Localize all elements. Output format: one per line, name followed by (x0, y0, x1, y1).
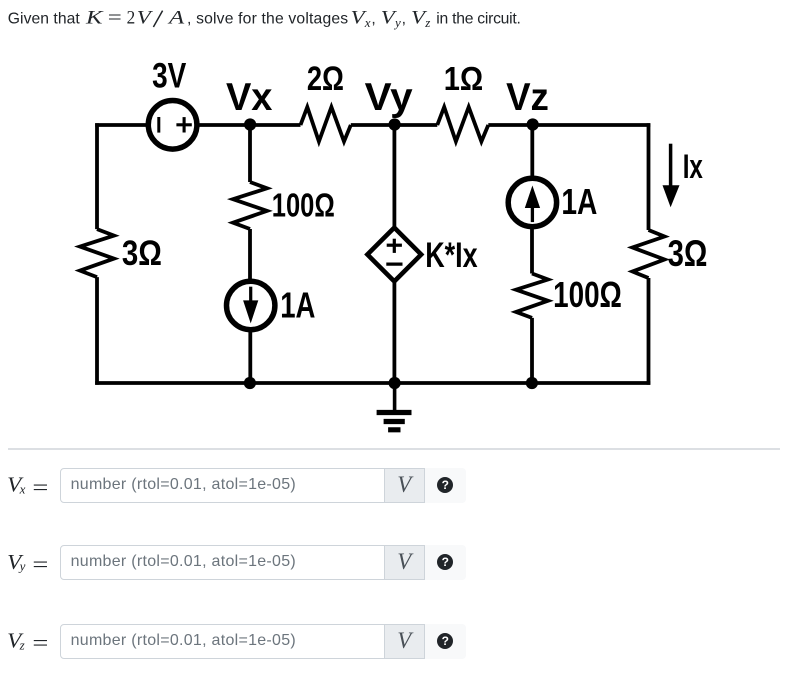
wire Vy node down to dependent source (392, 125, 396, 229)
svg-text:V: V (137, 8, 154, 29)
svg-text:Ix: Ix (683, 148, 703, 186)
svg-text:y: y (18, 559, 26, 574)
svg-text:x: x (364, 15, 371, 30)
label node Vy (365, 76, 413, 119)
current source 1A (up arrow, Vz branch) (508, 178, 556, 226)
svg-text:z: z (424, 15, 430, 30)
dependent source K*Ix (diamond) (367, 228, 421, 282)
wire 100-ohm to bottom rail (Vz branch) (530, 318, 534, 383)
svg-text:Vx: Vx (226, 76, 273, 119)
label 1A (Vz branch) (561, 181, 597, 222)
junction dot bottom (Vy branch / ground node) (389, 377, 401, 389)
wire left rail lower (95, 277, 99, 385)
svg-text:K: K (85, 8, 105, 29)
svg-text:Given that: Given that (8, 11, 81, 28)
wire bottom rail (95, 381, 650, 385)
wire dependent source to bottom rail (392, 281, 396, 383)
svg-text:=: = (32, 552, 48, 577)
svg-text:100Ω: 100Ω (553, 274, 622, 315)
current source 1A (down arrow, Vx branch) (227, 281, 275, 329)
svg-text:z: z (19, 637, 25, 652)
resistor 2-ohm (301, 107, 351, 142)
resistor 100-ohm (Vx branch) (233, 182, 267, 229)
wire top segment: 1-ohm to top-right corner, through node Vz (488, 123, 650, 127)
label 3-ohm right (668, 233, 708, 274)
svg-text:100Ω: 100Ω (272, 187, 335, 225)
svg-text:1A: 1A (280, 285, 315, 326)
ground (377, 383, 412, 430)
resistor 100-ohm (Vz branch) (516, 274, 548, 318)
svg-text:in the circuit.: in the circuit. (436, 11, 520, 28)
svg-text:3Ω: 3Ω (122, 233, 162, 273)
resistor 3-ohm right (633, 230, 665, 278)
svg-text:=: = (108, 8, 122, 29)
label Ix (683, 148, 703, 186)
wire right rail upper (647, 123, 651, 230)
svg-text:Vz: Vz (506, 76, 549, 119)
svg-text:3V: 3V (152, 56, 186, 96)
junction dot bottom (Vz branch) (526, 377, 538, 389)
wire top-left segment (left rail to voltage source) (95, 123, 148, 127)
node Vz junction dot (527, 118, 539, 130)
svg-text:1A: 1A (561, 181, 597, 222)
wire Vx node down to 100-ohm (248, 125, 252, 182)
label 2-ohm (307, 60, 344, 98)
svg-text:Vy: Vy (365, 76, 413, 119)
label 100-ohm (Vx branch) (272, 187, 335, 225)
wire 1A source to bottom rail (248, 331, 252, 384)
label 100-ohm (Vz branch) (553, 274, 622, 315)
svg-text:,: , (371, 11, 375, 28)
wire 1A source to 100-ohm (Vz branch) (530, 227, 534, 274)
svg-text:=: = (32, 630, 48, 655)
svg-text:K*Ix: K*Ix (425, 235, 478, 275)
wire left rail upper (95, 123, 99, 229)
label 3V (152, 56, 186, 96)
label 1-ohm (444, 60, 483, 97)
label K*Ix (425, 235, 478, 275)
svg-text:2: 2 (127, 8, 136, 29)
node Vy junction dot (389, 118, 401, 130)
wire right rail lower (647, 278, 651, 385)
label node Vx (226, 76, 273, 119)
voltage source 3V (148, 101, 197, 150)
wire top segment: source to 2-ohm resistor, through node Vx (198, 123, 301, 127)
svg-text:2Ω: 2Ω (307, 60, 344, 98)
svg-text:A: A (166, 8, 184, 29)
wire 100-ohm to 1A source (248, 229, 252, 280)
resistor 1-ohm (437, 107, 488, 142)
wire Vz node down to 1A source (530, 125, 534, 178)
resistor 3-ohm left (80, 229, 114, 277)
svg-text:, solve for the voltages: , solve for the voltages (187, 11, 348, 28)
current arrow Ix (663, 144, 680, 208)
svg-text:y: y (393, 15, 401, 30)
svg-text:x: x (19, 482, 26, 497)
svg-text:3Ω: 3Ω (668, 233, 708, 274)
junction dot bottom (Vx branch) (244, 377, 256, 389)
label node Vz (506, 76, 549, 119)
svg-text:,: , (402, 11, 406, 28)
svg-text:1Ω: 1Ω (444, 60, 483, 97)
node Vx junction dot (244, 118, 256, 130)
label 1A (Vx branch) (280, 285, 315, 326)
label 3-ohm left (122, 233, 162, 273)
wire top segment: 2-ohm to 1-ohm, through node Vy (351, 123, 438, 127)
svg-text:=: = (32, 474, 48, 499)
